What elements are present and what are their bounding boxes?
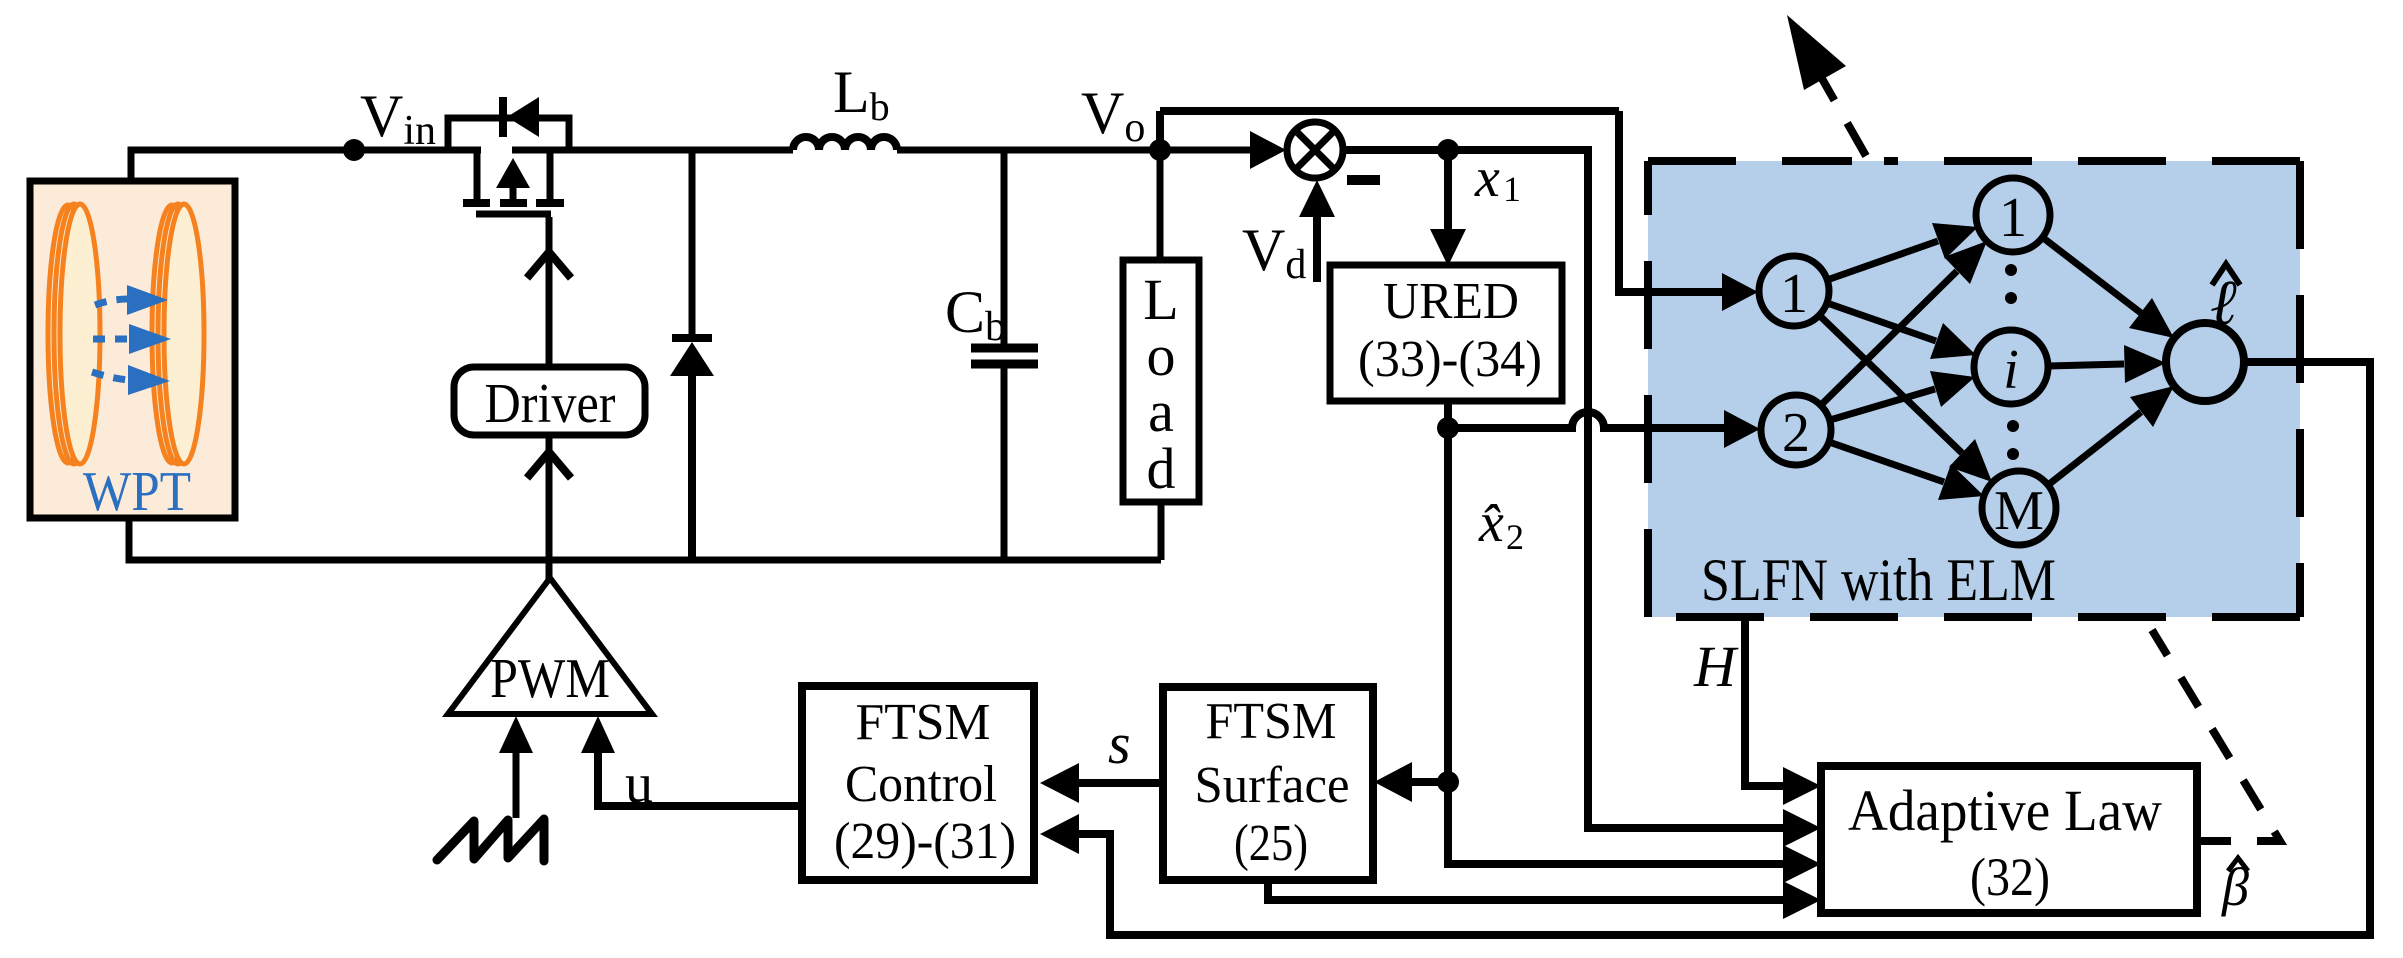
wire Load bottom to return rail — [1158, 502, 1165, 560]
svg-text:s: s — [1108, 711, 1131, 776]
gate arrow chevron — [527, 252, 571, 278]
edge input2 to hidden1 — [1821, 271, 1957, 405]
svg-text:Vd: Vd — [1242, 217, 1306, 288]
svg-text:1: 1 — [1780, 263, 1808, 325]
wire multiplier output to x1 vertical — [1343, 150, 1783, 828]
dashed callout arrow top right — [1787, 15, 1866, 156]
FTSM Control block — [802, 686, 1034, 880]
arrow into input node 1 — [1722, 273, 1758, 311]
hidden node 1 — [1976, 178, 2050, 252]
svg-text:2: 2 — [1782, 402, 1810, 464]
FTSM Surface block — [1163, 687, 1373, 880]
arrow into input node 2 — [1724, 410, 1760, 448]
wire gate lead down to Driver — [546, 217, 553, 367]
wire inductor to multiplier arrow — [897, 147, 1251, 154]
sawtooth carrier input arrow — [499, 716, 533, 818]
svg-text:Cb: Cb — [945, 279, 1006, 350]
WPT block — [30, 181, 235, 518]
edge input1 to hidden1 — [1827, 241, 1938, 280]
arrowheads into Adaptive Law — [1783, 767, 1821, 805]
driver input chevron arrow — [527, 452, 571, 478]
svg-text:(29)-(31): (29)-(31) — [834, 813, 1016, 870]
svg-text:1: 1 — [1999, 187, 2027, 249]
svg-text:SLFN with ELM: SLFN with ELM — [1701, 547, 2056, 613]
svg-text:Adaptive Law: Adaptive Law — [1848, 778, 2162, 843]
svg-text:H: H — [1693, 634, 1739, 699]
WPT secondary coil — [151, 203, 205, 465]
node xhat2 dot — [1437, 417, 1459, 439]
svg-text:x: x — [1474, 147, 1500, 209]
hidden node i — [1974, 330, 2048, 404]
Driver block — [454, 367, 645, 435]
svg-text:u: u — [625, 753, 653, 815]
edge hidden M to output — [2048, 412, 2141, 485]
Load block — [1123, 260, 1199, 502]
wire from WPT top to Vin rail — [131, 150, 448, 181]
WPT flux arrow middle — [93, 324, 171, 354]
edge input1 to hidden i — [1827, 303, 1936, 341]
node Vin dot — [343, 139, 365, 161]
edge hidden i to output — [2048, 364, 2124, 366]
wire Vo feedback to SLFN input1 — [1619, 111, 1731, 292]
svg-text:Control: Control — [845, 756, 997, 813]
dashed beta-hat output from Adaptive Law to SLFN — [2152, 630, 2280, 841]
SLFN with ELM dashed blue box — [1648, 161, 2300, 617]
svg-text:Driver: Driver — [485, 373, 616, 435]
svg-text:i: i — [2003, 339, 2019, 401]
output node — [2166, 323, 2244, 401]
wire xhat2 junction down to Adaptive Law — [1448, 782, 1783, 864]
diode D1 freewheeling — [670, 150, 714, 560]
inductor Lb — [793, 137, 897, 150]
svg-text:x̂: x̂ — [1478, 492, 1504, 554]
hidden node M — [1982, 471, 2056, 545]
hidden layer dots upper — [2005, 264, 2017, 276]
svg-text:a: a — [1148, 379, 1174, 444]
wire FTSM Surface bottom to Adaptive Law — [1268, 880, 1783, 900]
svg-text:FTSM: FTSM — [1206, 693, 1337, 750]
svg-text:2: 2 — [1506, 517, 1524, 557]
wire xhat2 to SLFN input2 with hop — [1448, 412, 1731, 428]
wire x1 down into URED — [1430, 150, 1466, 266]
WPT primary coil — [47, 203, 101, 465]
edge input2 to hidden M — [1829, 442, 1944, 482]
edge input1 to hidden M — [1819, 315, 1962, 453]
svg-text:URED: URED — [1383, 273, 1519, 330]
transistor Q1 body diode — [503, 97, 539, 137]
svg-text:PWM: PWM — [490, 648, 610, 710]
WPT flux arrow bottom — [92, 365, 170, 395]
capacitor Cb — [971, 150, 1038, 560]
Vd reference arrow into multiplier — [1299, 180, 1335, 282]
svg-text:1: 1 — [1503, 169, 1521, 209]
wire URED output xhat2 down — [1444, 401, 1452, 782]
svg-text:Vin: Vin — [360, 83, 436, 154]
svg-text:d: d — [1147, 436, 1176, 501]
transistor Q1 MOSFET structure — [463, 150, 564, 214]
svg-text:Lb: Lb — [833, 59, 890, 129]
wire Vo node down to Load — [1157, 150, 1164, 260]
wire rail Vin to MOSFET source — [448, 147, 481, 154]
multiplier comparator circle — [1160, 111, 1619, 180]
svg-text:M: M — [1994, 480, 2044, 542]
Adaptive Law block — [1821, 766, 2197, 913]
WPT flux arrow top — [95, 285, 168, 315]
input node 2 — [1761, 395, 1831, 465]
wire s from FTSM Surface to FTSM Control — [1040, 763, 1163, 803]
hidden layer dots lower — [2007, 420, 2019, 432]
arrow into FTSM Control lower — [1040, 814, 1079, 854]
sawtooth symbol — [437, 819, 544, 861]
wire H from SLFN to Adaptive Law — [1745, 617, 1783, 786]
input node 1 — [1759, 256, 1829, 326]
URED block — [1330, 265, 1562, 401]
wire junction left arrow into FTSM Surface — [1374, 762, 1448, 802]
svg-text:WPT: WPT — [83, 461, 191, 523]
node s junction dot — [1437, 771, 1459, 793]
return rail bottom of converter — [129, 518, 1161, 560]
wire Driver down to PWM apex — [546, 435, 553, 580]
svg-text:(25): (25) — [1234, 815, 1308, 872]
wire MOSFET drain to inductor — [512, 147, 793, 154]
svg-text:(33)-(34): (33)-(34) — [1358, 331, 1542, 388]
wire output ellhat to right rail down — [1079, 362, 2370, 935]
svg-text:FTSM: FTSM — [856, 694, 991, 751]
edge input2 to hidden i — [1830, 389, 1935, 420]
svg-text:(32): (32) — [1970, 847, 2050, 907]
control input u arrow to PWM — [581, 716, 804, 806]
PWM triangle block — [448, 578, 652, 714]
edge hidden1 to output — [2042, 237, 2141, 313]
transistor Q1 body-diode loop — [448, 118, 569, 150]
svg-text:Vo: Vo — [1081, 80, 1145, 151]
node x1 dot — [1437, 139, 1459, 161]
svg-text:Surface: Surface — [1195, 757, 1350, 814]
node Vo dot — [1149, 139, 1171, 161]
